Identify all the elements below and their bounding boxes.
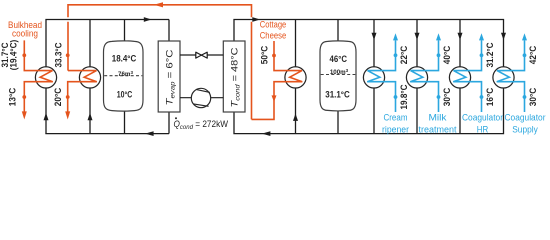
- compressor: [191, 88, 210, 107]
- wire: bulkhead cooling stream 1 through HX1: [24, 40, 53, 111]
- node: stream 1 inlet measuring point: [22, 53, 26, 57]
- node: stream 1 outlet measuring point: [22, 95, 26, 99]
- svg-text:22°C: 22°C: [399, 45, 409, 64]
- title: Cream ripener: [382, 113, 409, 135]
- arrow: flow left on chilled loop bottom header: [145, 131, 154, 136]
- cold storage tank vessel: [104, 41, 144, 111]
- wire: coagulator supply stream through HX7: [497, 40, 525, 112]
- wire: chilled-water riser x=46 lower segment: [45, 88, 47, 134]
- arrow: flow left on hot loop bottom header: [262, 131, 271, 136]
- heat exchanger HX4 cream ripener: [363, 67, 384, 88]
- svg-text:33.3°C: 33.3°C: [53, 42, 63, 68]
- wire: bulkhead cooling stream 2 through HX2: [68, 71, 97, 112]
- node: coagulator HR outlet measuring point: [480, 53, 484, 57]
- hot storage tank vessel: [320, 41, 356, 111]
- wire: hot-water drop x=374 lower segment: [373, 88, 375, 134]
- wire: cottage cheese return line (up x=251.5, top header to x=68): [68, 5, 252, 120]
- node: stream 2 inlet measuring point: [66, 53, 70, 57]
- wire: cold tank top connector x=124.5: [124, 20, 126, 42]
- arrow: flow right on hot loop top header: [252, 17, 260, 22]
- wire: milk treatment stream through HX5: [410, 40, 438, 112]
- cold tank level dashed line (76 m3): [104, 75, 142, 77]
- heat exchanger HX7 coagulator supply: [493, 67, 514, 88]
- arrow: flow up on riser x=295.5: [293, 114, 298, 121]
- node: milk treatment inlet measuring point: [437, 95, 441, 99]
- arrow: flow down on drop x=503.5: [501, 33, 506, 40]
- arrow: flow down on drop x=374: [372, 33, 377, 40]
- wire: refrigerant line evaporator-condenser through valve: [180, 54, 223, 56]
- node: coagulator supply inlet measuring point: [523, 95, 527, 99]
- heat exchanger HX6 coagulator HR: [449, 67, 470, 88]
- svg-text:Milk: Milk: [429, 113, 448, 123]
- arrow: flow down on drop x=417: [415, 33, 420, 40]
- arrow: coagulator HR stream up: [479, 33, 484, 40]
- hot tank level dashed line (100 m3): [321, 74, 356, 76]
- title: Coagulator HR: [462, 113, 503, 135]
- arrow: stream 2 outlet down: [65, 111, 70, 119]
- svg-text:10°C: 10°C: [117, 90, 133, 100]
- svg-text:treatment: treatment: [419, 124, 458, 134]
- wire: cold tank bottom outlet x=124.5: [124, 111, 126, 134]
- wire: condenser top connector + hot loop top header: [234, 20, 504, 67]
- wire: hot-water drop x=460 lower segment: [459, 88, 461, 134]
- wire: evaporator bottom outlet x=169: [168, 112, 170, 134]
- node: coagulator supply outlet measuring point: [523, 53, 527, 57]
- wire: chilled-water loop bottom header (46,133.6)-(169,133.6): [46, 132, 169, 135]
- wire: hot tank top connector x=338: [337, 20, 339, 42]
- title: Cottage Cheese: [260, 20, 287, 41]
- svg-text:19.8°C: 19.8°C: [399, 84, 409, 110]
- arrow: flow down on drop x=460: [458, 33, 463, 40]
- wire: hot-water riser x=295.5 lower segment: [295, 88, 297, 134]
- wire: chilled-water riser x=90 lower segment: [89, 88, 91, 134]
- wire: hot-water riser x=295.5 upper segment: [295, 20, 297, 67]
- node: cream ripener inlet measuring point: [394, 95, 398, 99]
- svg-text:Coagulator: Coagulator: [462, 113, 503, 123]
- svg-text:ripener: ripener: [382, 124, 409, 134]
- svg-text:Cheese: Cheese: [260, 31, 287, 41]
- node: stream 2 outlet measuring point: [66, 95, 70, 99]
- arrow: flow right on chilled loop top header: [144, 17, 152, 22]
- wire: hot-water drop x=417 lower segment: [416, 88, 418, 134]
- title: Milk treatment: [419, 113, 458, 135]
- wire: hot-water drop x=503.5 lower (loop right edge) + bottom header: [234, 88, 504, 134]
- svg-text:31.1°C: 31.1°C: [325, 90, 350, 100]
- arrow: flow up on riser x=46: [44, 113, 49, 120]
- wire: hot-water drop x=460 upper segment: [459, 20, 461, 67]
- svg-text:18.4°C: 18.4°C: [112, 53, 137, 63]
- condenser duty label Qcond = 272kW: [174, 117, 229, 131]
- svg-text:HR: HR: [477, 124, 489, 134]
- heat exchanger HX3 cottage cheese: [285, 67, 306, 88]
- svg-text:cooling: cooling: [12, 29, 38, 39]
- svg-text:(19.4°C): (19.4°C): [9, 40, 19, 71]
- svg-text:Qcond = 272kW: Qcond = 272kW: [174, 119, 229, 131]
- node: milk treatment outlet measuring point: [437, 53, 441, 57]
- wire: hot-water drop x=374 upper segment: [373, 20, 375, 67]
- node: cream ripener outlet measuring point: [394, 53, 398, 57]
- arrow: cottage cheese stream down: [272, 95, 277, 102]
- wire: cream ripener stream through HX4: [367, 40, 395, 112]
- wire: hot-water drop x=417 upper segment: [416, 20, 418, 67]
- svg-text:42°C: 42°C: [528, 45, 538, 64]
- heat exchanger HX1 bulkhead cooling 1: [35, 67, 56, 88]
- svg-text:50°C: 50°C: [259, 45, 269, 64]
- wire: cottage cheese stream through HX3: [252, 41, 303, 119]
- svg-text:13°C: 13°C: [8, 87, 18, 106]
- heat exchanger HX2 bulkhead cooling 2: [79, 67, 100, 88]
- expansion valve: [196, 52, 207, 58]
- arrow: stream 1 outlet down: [22, 111, 27, 119]
- condenser vessel: [223, 41, 245, 112]
- svg-text:Coagulator: Coagulator: [505, 113, 546, 123]
- svg-text:Cream: Cream: [384, 113, 408, 123]
- arrow: flow up on riser x=90: [88, 113, 93, 120]
- svg-text:20°C: 20°C: [53, 87, 63, 106]
- svg-text:30°C: 30°C: [442, 87, 452, 106]
- title: Coagulator Supply: [505, 113, 546, 135]
- wire: hot tank bottom outlet x=338: [337, 111, 339, 134]
- arrow: cream ripener stream up: [393, 33, 398, 40]
- svg-text:40°C: 40°C: [442, 45, 452, 64]
- wire: chilled-water riser x=46 upper + loop top header: [46, 20, 169, 67]
- evaporator vessel: [158, 41, 180, 112]
- node: coagulator HR inlet measuring point: [480, 95, 484, 99]
- wire: chilled-water riser x=90 upper segment: [89, 20, 91, 67]
- svg-text:31.2°C: 31.2°C: [485, 42, 495, 68]
- node: cottage cheese inlet measuring point: [272, 54, 276, 58]
- svg-text:Supply: Supply: [512, 124, 538, 134]
- arrow: flow left on orange return header: [154, 2, 163, 7]
- svg-text:Cottage: Cottage: [260, 20, 287, 30]
- svg-text:16°C: 16°C: [485, 87, 495, 106]
- heat exchanger HX5 milk treatment: [406, 67, 427, 88]
- wire: coagulator HR stream through HX6: [453, 40, 481, 112]
- title: Bulkhead cooling: [8, 20, 42, 39]
- svg-text:46°C: 46°C: [330, 54, 348, 64]
- arrow: coagulator supply stream up: [522, 33, 527, 40]
- wire: refrigerant line to compressor: [180, 97, 223, 99]
- arrow: milk treatment stream up: [436, 33, 441, 40]
- wire: evaporator top connector x=169: [168, 20, 170, 42]
- svg-text:30°C: 30°C: [528, 87, 538, 106]
